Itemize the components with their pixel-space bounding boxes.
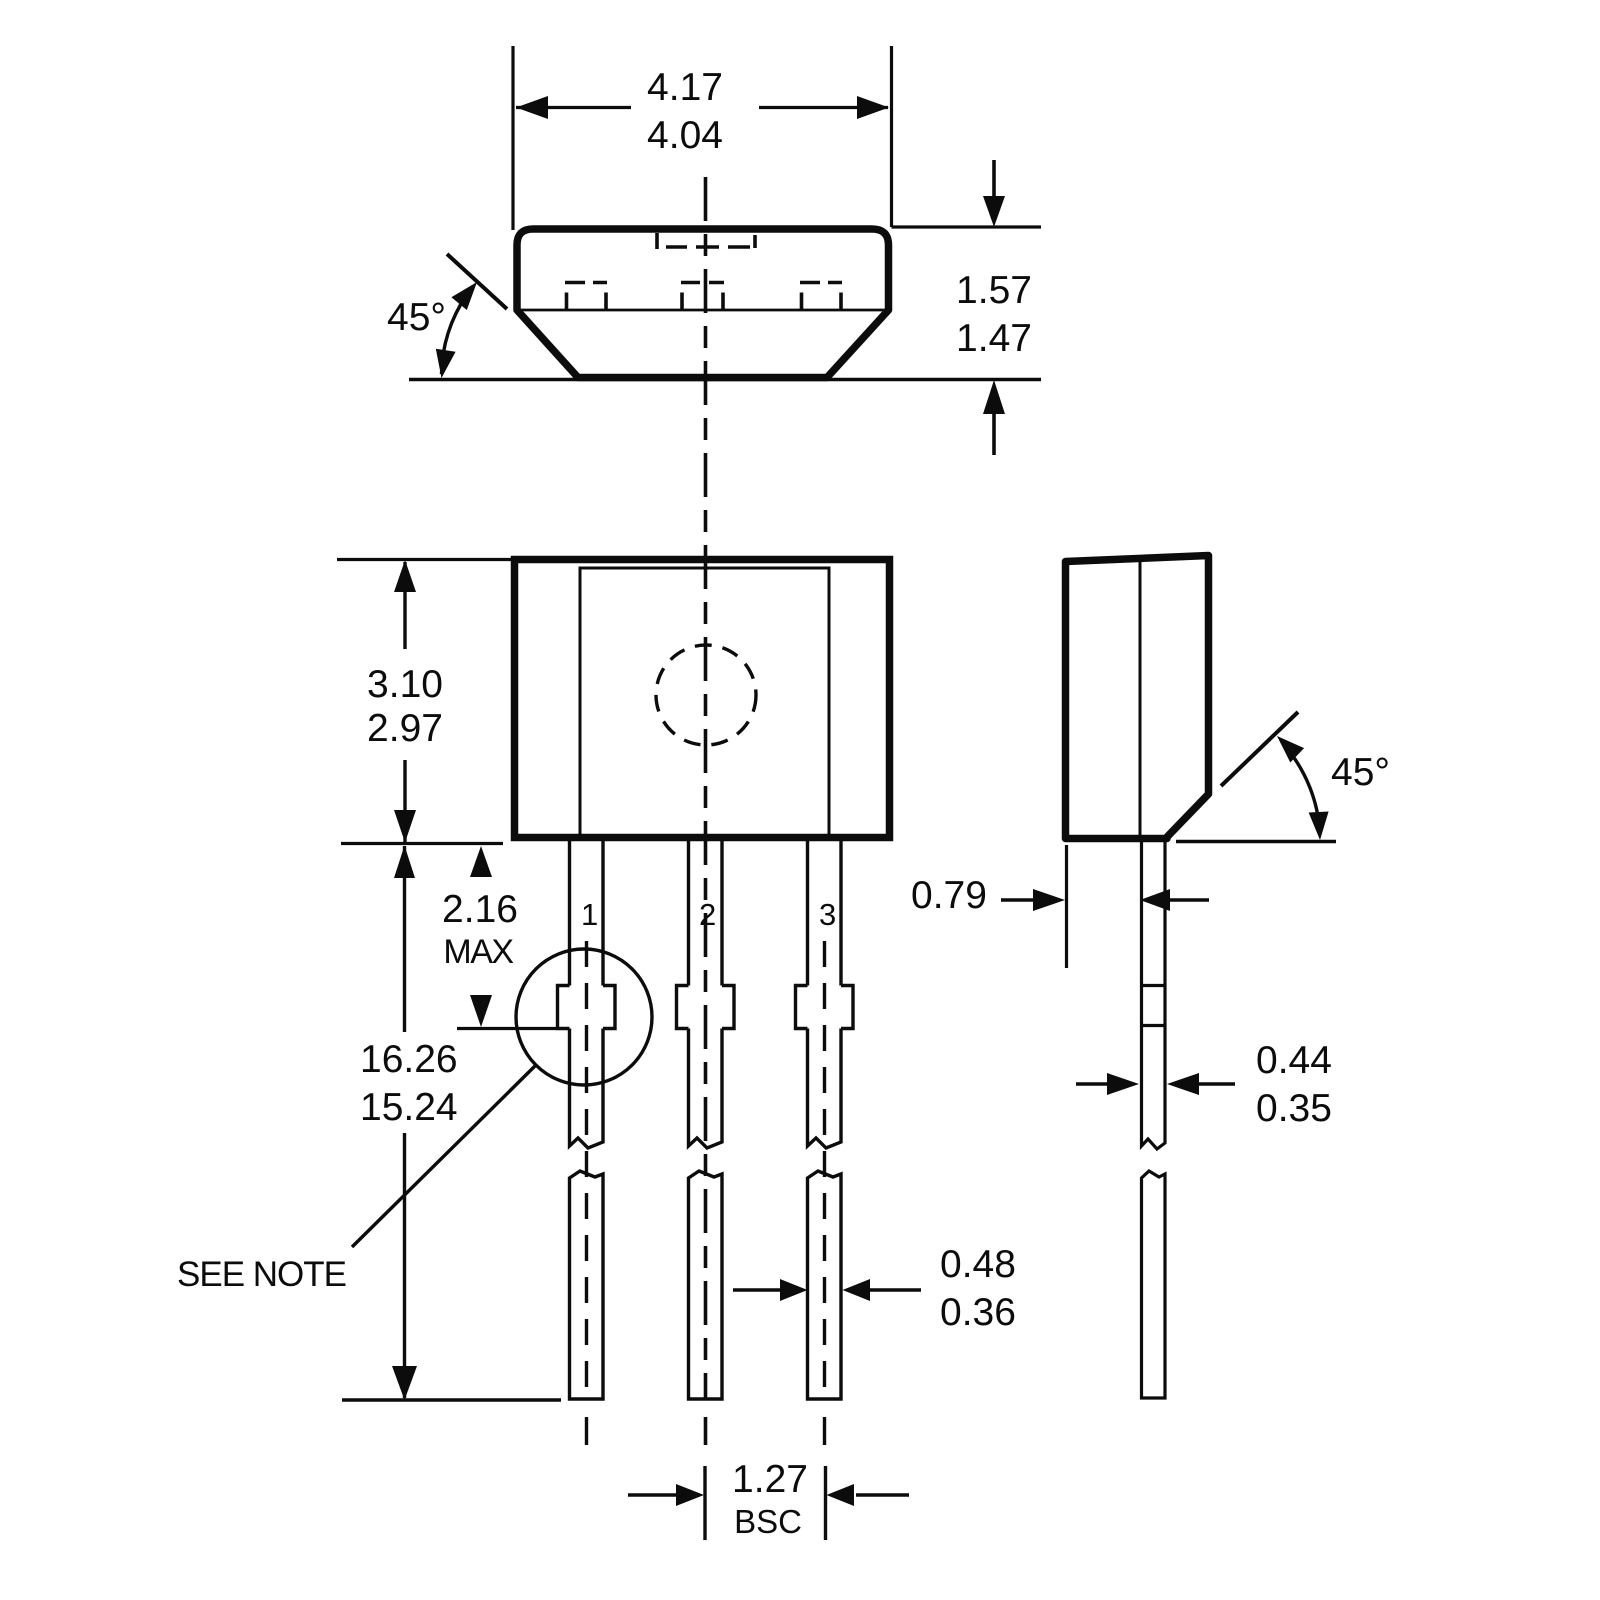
svg-text:0.35: 0.35 xyxy=(1256,1087,1332,1130)
top view package body outline xyxy=(517,229,889,378)
dimension 2.16 MAX lower arrowhead (pointing down) xyxy=(470,995,492,1027)
side view parting line xyxy=(1139,557,1142,838)
svg-text:3: 3 xyxy=(819,897,836,932)
lead 3 shoulder xyxy=(796,986,854,1029)
side view package body outline xyxy=(1066,556,1209,839)
svg-text:3.10: 3.10 xyxy=(367,663,443,706)
dimension 0.44/0.35 left arrow xyxy=(1076,1082,1109,1085)
dimension 0.44/0.35 right arrow xyxy=(1197,1082,1235,1085)
dimension 1.27 BSC right extension line xyxy=(824,1466,827,1540)
svg-text:1.27: 1.27 xyxy=(732,1458,808,1501)
dimension 3.10/2.97 bottom arrowhead xyxy=(394,810,416,843)
top view hidden lead 1 (dashed bracket) xyxy=(565,283,607,311)
front view hidden sensor circle (dashed) xyxy=(656,645,756,745)
45 degree arc upper arrowhead (top view) xyxy=(451,282,477,310)
dimension 0.48/0.36 right arrow xyxy=(870,1288,921,1291)
see-note detail circle around lead 1 shoulder xyxy=(516,949,652,1085)
svg-text:45°: 45° xyxy=(1331,751,1390,794)
svg-text:0.44: 0.44 xyxy=(1256,1039,1332,1082)
lead 3 below shoulder with break xyxy=(808,1029,842,1149)
svg-text:MAX: MAX xyxy=(443,933,513,971)
svg-text:0.36: 0.36 xyxy=(940,1291,1016,1334)
dimension 1.57/1.47 upper arrow shaft xyxy=(992,160,996,200)
dimension 1.27 BSC left extension line xyxy=(703,1466,706,1540)
45 degree angle arc (side view) xyxy=(1285,746,1320,834)
top view hidden die pad (dashed bracket at top) xyxy=(657,233,755,249)
lead 2 upper segment xyxy=(689,841,723,986)
lead 2 below shoulder with break xyxy=(689,1029,723,1149)
lead 2 lower segment xyxy=(689,1171,723,1399)
see-note leader line xyxy=(352,1065,536,1247)
dimension 0.79 right arrow xyxy=(1168,898,1209,901)
svg-text:1.47: 1.47 xyxy=(956,317,1032,360)
svg-text:2: 2 xyxy=(699,897,716,932)
dimension 16.26/15.24 dimension line xyxy=(403,846,406,1032)
svg-text:0.48: 0.48 xyxy=(940,1243,1016,1286)
svg-text:4.04: 4.04 xyxy=(647,114,723,157)
dimension 4.17/4.04 extension line left xyxy=(511,46,514,230)
dimension 1.57/1.47 upper arrowhead xyxy=(983,196,1005,227)
dimension 4.17/4.04 dimension line xyxy=(516,106,631,109)
lead 3 center line xyxy=(823,941,826,1399)
svg-text:4.17: 4.17 xyxy=(647,66,723,109)
svg-text:1.57: 1.57 xyxy=(956,269,1032,312)
45 degree arc lower arrowhead (top view) xyxy=(436,349,456,378)
top view hidden lead 2 (dashed bracket) xyxy=(681,283,724,311)
dimension 1.57/1.47 lower arrowhead xyxy=(983,380,1005,414)
dimension 0.79 extension line xyxy=(1065,845,1068,968)
side view lead shoulder tick marks xyxy=(1140,984,1167,987)
svg-text:SEE NOTE: SEE NOTE xyxy=(177,1255,346,1294)
dimension 0.79 left arrow xyxy=(1001,898,1035,901)
dimension 4.17/4.04 left arrowhead xyxy=(516,96,548,119)
45 degree arc upper arrowhead (side view) xyxy=(1277,736,1304,763)
front view branded face (inner rectangle) xyxy=(580,568,829,837)
45 degree arc lower arrowhead (side view) xyxy=(1309,812,1329,841)
dimension 16.26/15.24 bottom arrowhead xyxy=(392,1366,417,1400)
45 degree baseline (side view) xyxy=(1176,840,1336,843)
dimension 1.27 BSC left arrow xyxy=(628,1493,678,1496)
svg-text:2.16: 2.16 xyxy=(442,888,518,931)
svg-text:16.26: 16.26 xyxy=(360,1038,458,1081)
side view lead upper segment xyxy=(1142,841,1166,1149)
lead 1 below shoulder with break xyxy=(570,1029,604,1149)
dimension 3.10/2.97 lower extension line xyxy=(341,842,503,845)
dimension 16.26/15.24 top arrowhead xyxy=(394,846,415,879)
svg-text:15.24: 15.24 xyxy=(360,1086,458,1129)
top view seating baseline xyxy=(409,378,1041,381)
lead 1 center line xyxy=(585,941,588,1399)
dimension 0.48/0.36 left arrow xyxy=(733,1288,782,1291)
dimension 1.57/1.47 lower arrow shaft xyxy=(992,414,996,455)
side view lead lower segment xyxy=(1142,1171,1166,1398)
dimension 1.57/1.47 upper reference line xyxy=(892,225,1042,228)
top view hidden lead 3 (dashed bracket) xyxy=(800,283,842,311)
lead 2 shoulder xyxy=(677,986,735,1029)
lead 3 lower segment xyxy=(808,1171,842,1399)
dimension 1.27 BSC right arrow xyxy=(856,1493,909,1496)
dimension 4.17/4.04 right arrowhead xyxy=(857,96,889,119)
svg-text:0.79: 0.79 xyxy=(911,874,987,917)
lead 1 lower segment xyxy=(570,1171,604,1399)
dimension 2.16 reference line at shoulder bottom xyxy=(457,1027,556,1030)
lead 1 upper segment xyxy=(570,841,604,986)
dimension 3.10/2.97 upper extension line xyxy=(337,558,511,561)
svg-text:1: 1 xyxy=(581,897,598,932)
dimension 4.17/4.04 extension line right xyxy=(890,46,893,227)
center line dash below lead 2 tip xyxy=(704,1417,708,1445)
dimension 3.10/2.97 dimension line xyxy=(403,562,406,649)
svg-text:BSC: BSC xyxy=(734,1503,802,1540)
top view parting line (edge between top face and chamfer) xyxy=(517,309,888,312)
front view package body outline xyxy=(515,560,890,838)
dimension 16.26/15.24 baseline at lead tips xyxy=(342,1398,561,1401)
45 degree chamfer reference line (side view) xyxy=(1221,712,1298,786)
vertical center line through top and front views xyxy=(704,177,708,1399)
lead 3 upper segment xyxy=(808,841,842,986)
45 degree angle arc (top view) xyxy=(442,296,467,374)
svg-text:45°: 45° xyxy=(387,296,446,339)
svg-text:2.97: 2.97 xyxy=(367,707,443,750)
45 degree chamfer reference line (top view) xyxy=(447,254,507,309)
lead 1 shoulder xyxy=(558,986,616,1029)
dimension 3.10/2.97 top arrowhead xyxy=(394,560,416,592)
dimension 2.16 MAX upper arrowhead (pointing up) xyxy=(470,846,492,877)
